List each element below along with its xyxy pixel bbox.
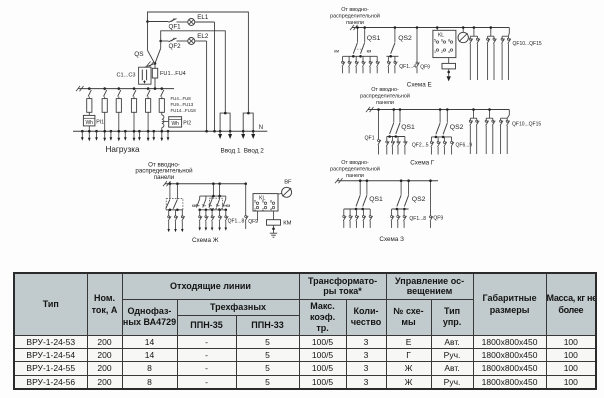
svg-text:QS: QS: [134, 51, 144, 58]
svg-text:2: 2: [262, 207, 264, 211]
svg-text:4: 4: [448, 50, 450, 54]
svg-text:EL2: EL2: [197, 33, 209, 40]
svg-text:PI1: PI1: [96, 120, 104, 126]
svg-text:5: 5: [254, 200, 256, 204]
svg-text:EL1: EL1: [197, 14, 209, 21]
svg-text:N: N: [259, 125, 263, 131]
svg-text:QS1: QS1: [367, 35, 381, 42]
svg-text:км: км: [192, 203, 197, 208]
svg-text:QF2: QF2: [169, 43, 182, 50]
svg-text:КМ: КМ: [283, 221, 291, 227]
svg-text:BF: BF: [284, 180, 292, 186]
svg-text:QF10...QF15: QF10...QF15: [512, 121, 541, 127]
svg-text:км: км: [226, 203, 231, 208]
svg-text:распределительной: распределительной: [330, 13, 380, 20]
svg-text:FU4...FU8: FU4...FU8: [171, 96, 192, 101]
svg-text:Нагрузка: Нагрузка: [105, 145, 140, 154]
svg-text:PI2: PI2: [183, 120, 191, 126]
svg-text:QS2: QS2: [412, 196, 426, 203]
svg-text:QF1...8: QF1...8: [228, 219, 245, 225]
svg-text:От вводно-: От вводно-: [371, 87, 399, 93]
svg-text:Wh: Wh: [85, 120, 93, 126]
svg-text:4: 4: [270, 207, 272, 211]
svg-text:QF10...QF15: QF10...QF15: [513, 41, 542, 47]
svg-text:6: 6: [262, 200, 264, 204]
svg-text:Схема Г: Схема Г: [410, 160, 435, 167]
svg-text:Wh: Wh: [171, 121, 179, 127]
svg-text:панели: панели: [376, 100, 394, 106]
svg-text:QS2: QS2: [450, 124, 464, 131]
svg-text:От вводно-: От вводно-: [341, 7, 369, 13]
svg-text:Схема Ж: Схема Ж: [192, 237, 219, 244]
svg-text:QF2...5: QF2...5: [412, 142, 429, 148]
svg-text:QF9: QF9: [248, 219, 258, 225]
svg-text:1: 1: [254, 207, 256, 211]
svg-text:панели: панели: [346, 20, 364, 26]
svg-text:QS1: QS1: [369, 196, 383, 203]
svg-text:8: 8: [270, 200, 272, 204]
svg-text:FU14...FU18: FU14...FU18: [171, 108, 197, 113]
svg-text:км: км: [334, 48, 339, 53]
svg-text:Схема З: Схема З: [379, 236, 404, 243]
svg-text:QF1: QF1: [365, 136, 375, 142]
svg-text:1: 1: [434, 50, 436, 54]
svg-text:2: 2: [441, 50, 443, 54]
svg-text:5: 5: [434, 38, 436, 42]
svg-text:QS1: QS1: [401, 124, 415, 131]
svg-text:панели: панели: [154, 174, 175, 181]
svg-text:км: км: [367, 48, 372, 53]
svg-text:C1...C3: C1...C3: [117, 73, 136, 79]
svg-text:Ввод 1: Ввод 1: [220, 148, 241, 155]
svg-text:FU1...FU4: FU1...FU4: [160, 71, 186, 77]
svg-text:Схема Е: Схема Е: [407, 82, 432, 89]
svg-text:QF1: QF1: [169, 24, 182, 31]
svg-text:QF9: QF9: [420, 65, 430, 71]
svg-text:QF6...9: QF6...9: [456, 143, 473, 149]
svg-text:распределительной: распределительной: [360, 93, 410, 100]
svg-text:Ввод 2: Ввод 2: [244, 148, 265, 155]
svg-text:распределительной: распределительной: [330, 165, 380, 172]
svg-text:От вводно-: От вводно-: [341, 160, 369, 166]
svg-text:8: 8: [448, 38, 450, 42]
svg-text:6: 6: [441, 38, 443, 42]
svg-text:QF9: QF9: [433, 216, 443, 222]
svg-text:FU9...FU13: FU9...FU13: [171, 102, 194, 107]
svg-text:QF1...4: QF1...4: [399, 64, 416, 70]
svg-text:панели: панели: [346, 173, 364, 179]
svg-text:QS2: QS2: [398, 35, 412, 42]
svg-text:QF1...8: QF1...8: [409, 216, 426, 222]
